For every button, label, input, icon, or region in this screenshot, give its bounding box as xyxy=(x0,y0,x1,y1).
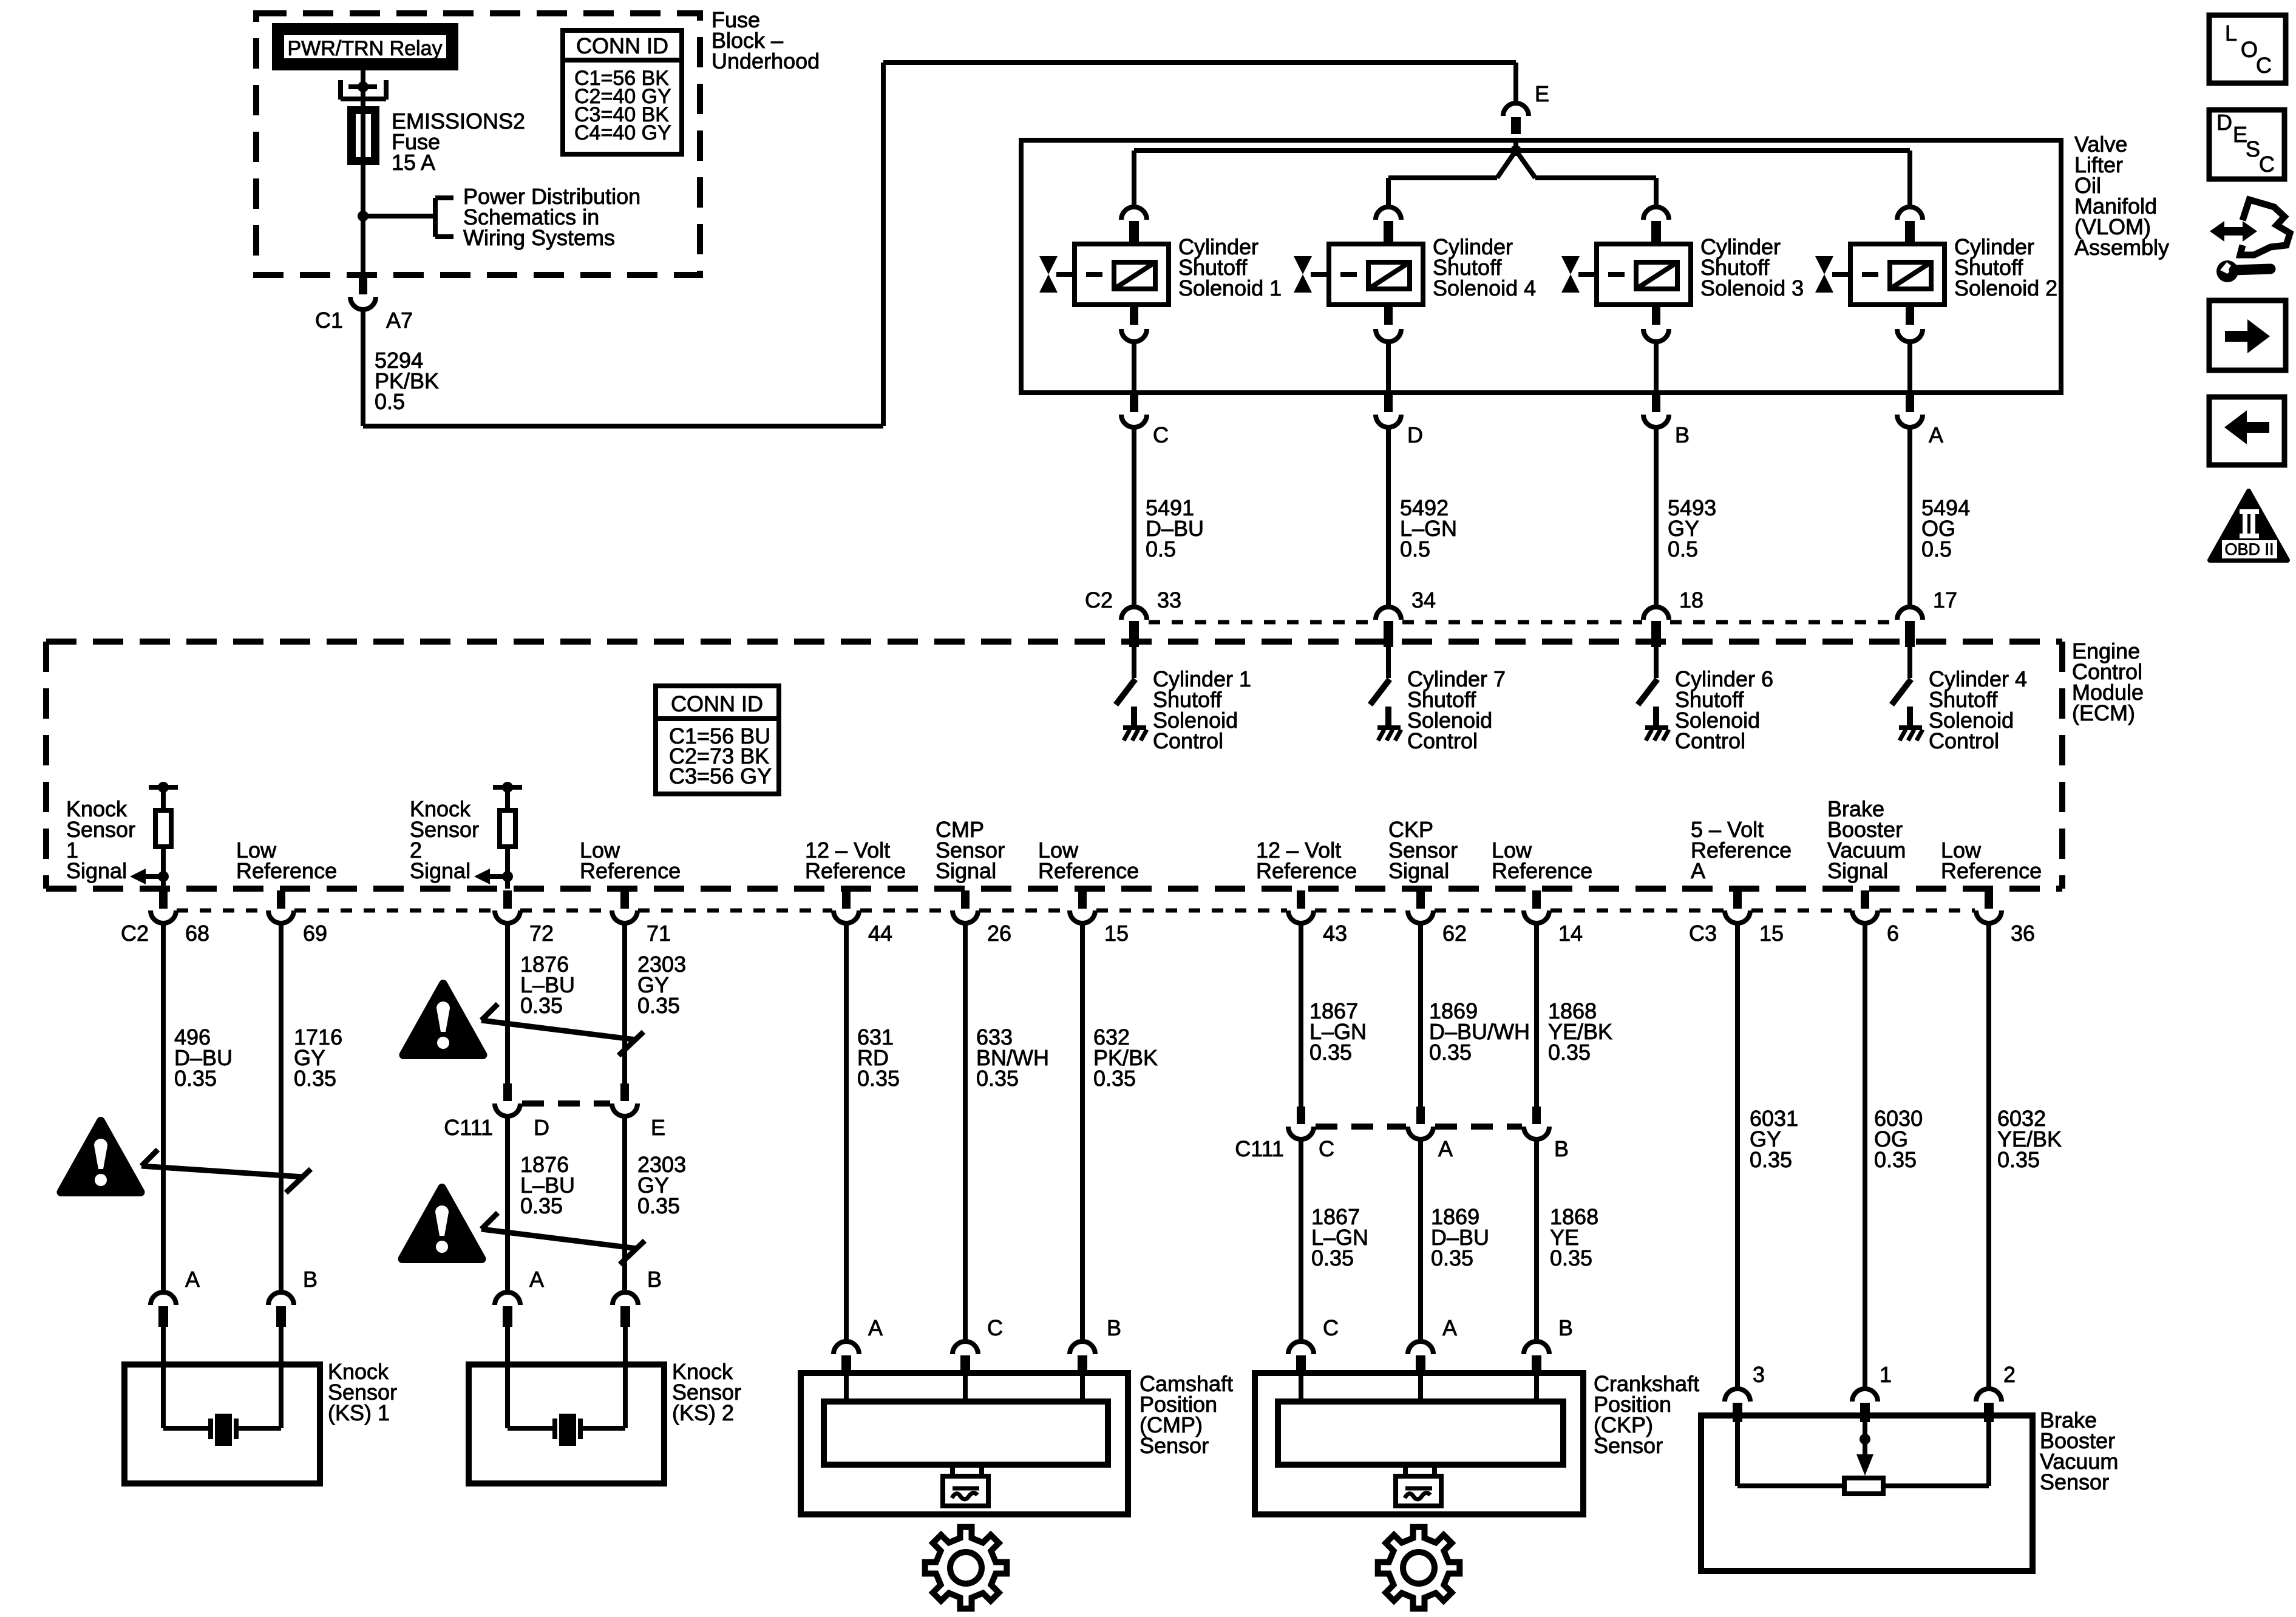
wire 1868 YE/BK 0.35 upper xyxy=(1534,923,1539,1107)
wire solenoid 2 to VLOM edge xyxy=(1907,342,1912,393)
svg-text:(KS) 2: (KS) 2 xyxy=(672,1400,734,1425)
hydraulic dashed link solenoid 4 xyxy=(1311,272,1368,277)
valve symbol at solenoid 4 xyxy=(1294,256,1312,274)
driver switch for cylinder 1 shutoff solenoid control xyxy=(1132,646,1136,678)
svg-text:Control: Control xyxy=(1153,728,1223,753)
svg-text:Sensor: Sensor xyxy=(1594,1433,1663,1458)
svg-text:B: B xyxy=(303,1267,318,1292)
svg-text:0.35: 0.35 xyxy=(637,993,680,1018)
svg-text:0.5: 0.5 xyxy=(1921,537,1952,561)
svg-text:0.35: 0.35 xyxy=(1309,1040,1352,1065)
ECM bottom connector pin 6 xyxy=(1861,890,1869,909)
signal junction dot KS1 xyxy=(158,871,169,882)
wire solenoid 4 to VLOM edge xyxy=(1386,342,1391,393)
svg-text:18: 18 xyxy=(1679,588,1703,612)
signal junction dot KS2 xyxy=(502,871,513,882)
svg-text:36: 36 xyxy=(2011,921,2035,946)
wire to ECM pin xyxy=(1907,427,1912,608)
svg-text:D: D xyxy=(534,1115,549,1140)
wire 1876 L-BU 0.35 lower xyxy=(505,1116,510,1293)
cylinder shutoff solenoid 2 box xyxy=(1850,244,1944,305)
camshaft position CMP sensor box xyxy=(801,1373,1128,1514)
connector C111 pin D xyxy=(503,1083,512,1101)
wire solenoid 3 to VLOM edge xyxy=(1654,342,1659,393)
BBV sensor internal wires xyxy=(1735,1415,1740,1486)
CMP inner element xyxy=(844,1373,849,1402)
icon LOC box xyxy=(2209,15,2286,83)
svg-text:Reference: Reference xyxy=(1256,858,1357,883)
svg-text:Signal: Signal xyxy=(1388,858,1449,883)
connector at cylinder shutoff solenoid 1 xyxy=(1121,207,1147,220)
knock sensor KS 2 box xyxy=(469,1364,664,1483)
valve symbol at solenoid 2 xyxy=(1815,256,1833,274)
connector C111 pin C xyxy=(1297,1107,1305,1124)
svg-text:Solenoid 1: Solenoid 1 xyxy=(1178,276,1282,300)
cylinder shutoff solenoid 3 box xyxy=(1597,244,1691,305)
wire 6032 YE/BK 0.35 xyxy=(1986,923,1991,1388)
svg-text:C3: C3 xyxy=(1689,921,1717,946)
wire 1869 D-BU/WH 0.35 upper xyxy=(1418,923,1423,1107)
wire bus to solenoids 1 and 2 xyxy=(1134,148,1910,153)
wire to ECM pin xyxy=(1386,427,1391,608)
svg-text:Reference: Reference xyxy=(805,858,906,883)
svg-text:Signal: Signal xyxy=(66,858,127,883)
signal arrow KS1 xyxy=(145,874,163,879)
wire xyxy=(505,847,510,889)
svg-text:CONN ID: CONN ID xyxy=(671,691,763,716)
BBV wiper arrow xyxy=(1856,1454,1873,1476)
CKP inner element xyxy=(1299,1373,1303,1402)
ground symbol xyxy=(1899,725,1922,730)
connector C111 pin E xyxy=(620,1083,629,1101)
wire 496 D-BU 0.35 xyxy=(161,923,166,1293)
connector at cylinder shutoff solenoid 3 xyxy=(1643,207,1669,220)
svg-text:15 A: 15 A xyxy=(392,150,435,175)
ECM bottom connector pin 68 xyxy=(159,890,168,909)
svg-text:34: 34 xyxy=(1411,588,1436,612)
svg-text:0.35: 0.35 xyxy=(294,1066,336,1091)
svg-text:E: E xyxy=(651,1115,665,1140)
solenoid 3 coil xyxy=(1636,262,1677,289)
reluctor gear CKP xyxy=(1378,1527,1460,1609)
svg-text:3: 3 xyxy=(1753,1362,1765,1387)
wire feed to solenoid 2 xyxy=(1907,151,1912,208)
svg-text:O: O xyxy=(2241,37,2258,62)
warning pointer KS2 upper xyxy=(481,1020,636,1040)
connector at cylinder shutoff solenoid 4 xyxy=(1376,207,1401,220)
svg-text:0.35: 0.35 xyxy=(174,1066,217,1091)
wire solenoid 1 to VLOM edge xyxy=(1132,342,1136,393)
wire xyxy=(161,847,166,889)
C111 dashed connector line xyxy=(522,1100,610,1107)
icon DESC box xyxy=(2209,110,2284,179)
svg-text:C2: C2 xyxy=(121,921,149,946)
svg-text:Underhood: Underhood xyxy=(712,49,820,73)
engine control module ECM dashed box xyxy=(46,642,2062,889)
cylinder shutoff solenoid 1 box xyxy=(1075,244,1169,305)
solenoid 3 lower pin xyxy=(1652,307,1660,325)
svg-text:C1: C1 xyxy=(315,308,343,333)
svg-text:Reference: Reference xyxy=(236,858,337,883)
svg-text:Control: Control xyxy=(1929,728,1999,753)
reluctor gear CMP xyxy=(925,1527,1007,1609)
ECM bottom connector pin 71 xyxy=(620,890,629,909)
svg-text:D: D xyxy=(2216,110,2232,135)
icon back arrow box xyxy=(2209,397,2284,465)
CKP pickup stem xyxy=(1403,1465,1408,1476)
svg-text:0.35: 0.35 xyxy=(1750,1147,1792,1172)
svg-text:D: D xyxy=(1407,422,1423,447)
ECM bottom connector pin 26 xyxy=(961,890,970,909)
solenoid 4 lower pin xyxy=(1384,307,1393,325)
svg-text:Control: Control xyxy=(1675,728,1745,753)
VLOM connector pin A xyxy=(1906,395,1914,412)
svg-text:15: 15 xyxy=(1759,921,1784,946)
solenoid 4 coil xyxy=(1368,262,1410,289)
warning triangle KS2 lower xyxy=(402,1188,482,1259)
svg-text:A: A xyxy=(185,1267,200,1292)
icon OBD II triangle xyxy=(2210,491,2288,560)
wire 631 RD 0.35 xyxy=(844,923,849,1341)
svg-text:0.35: 0.35 xyxy=(1550,1246,1592,1270)
fuse block dashed box - Fuse Block Underhood xyxy=(256,13,700,275)
svg-text:69: 69 xyxy=(303,921,327,946)
svg-text:0.35: 0.35 xyxy=(1311,1246,1354,1270)
svg-text:C111: C111 xyxy=(1235,1136,1284,1161)
svg-text:43: 43 xyxy=(1323,921,1347,946)
ground symbol xyxy=(1645,725,1668,730)
driver switch for cylinder 4 shutoff solenoid control xyxy=(1907,646,1912,678)
svg-text:C2: C2 xyxy=(1085,588,1113,612)
svg-text:Signal: Signal xyxy=(410,858,470,883)
splice junction xyxy=(1510,145,1521,156)
ECM bottom connector pin 43 xyxy=(1297,890,1305,909)
svg-text:Signal: Signal xyxy=(936,858,996,883)
svg-text:6: 6 xyxy=(1887,921,1899,946)
solenoid 2 lower pin xyxy=(1906,307,1914,325)
svg-text:A: A xyxy=(1929,422,1943,447)
piezo element KS2 xyxy=(508,1426,553,1431)
wire 1869 D-BU 0.35 lower xyxy=(1418,1139,1423,1341)
fork wires to solenoids 4 and 3 xyxy=(1497,151,1516,178)
svg-text:0.35: 0.35 xyxy=(520,1193,563,1218)
svg-text:A: A xyxy=(529,1267,544,1292)
svg-text:(KS) 1: (KS) 1 xyxy=(328,1400,390,1425)
svg-text:26: 26 xyxy=(987,921,1011,946)
svg-text:S: S xyxy=(2246,137,2260,161)
ECM bottom connector pin 62 xyxy=(1416,890,1425,909)
svg-text:Signal: Signal xyxy=(1827,858,1888,883)
hydraulic dashed link solenoid 3 xyxy=(1578,272,1636,277)
CONN ID table fuse block xyxy=(563,30,682,154)
solenoid 1 coil xyxy=(1114,262,1155,289)
ECM connector C2 pin 17 xyxy=(1897,607,1923,620)
wire feed to solenoid 1 xyxy=(1132,151,1136,208)
svg-text:CONN ID: CONN ID xyxy=(576,33,668,58)
warning pointer crossing KS1 wires xyxy=(141,1166,304,1177)
warning triangle KS2 upper xyxy=(404,984,483,1055)
relay K1 PWR/TRN Relay xyxy=(278,29,452,64)
VLOM connector pin C xyxy=(1130,395,1138,412)
ECM connector C2 pin 33 xyxy=(1121,607,1147,620)
svg-text:0.35: 0.35 xyxy=(1997,1147,2040,1172)
svg-text:68: 68 xyxy=(185,921,209,946)
connector C111 pin A xyxy=(1416,1107,1425,1124)
svg-text:C: C xyxy=(987,1315,1003,1340)
wire 632 PK/BK 0.35 xyxy=(1080,923,1085,1341)
connector C1 pin A7 xyxy=(359,277,367,294)
svg-text:OBD II: OBD II xyxy=(2224,540,2274,558)
svg-text:(ECM): (ECM) xyxy=(2072,700,2135,725)
ground symbol xyxy=(1377,725,1401,730)
svg-text:0.35: 0.35 xyxy=(1093,1066,1136,1091)
svg-text:0.35: 0.35 xyxy=(1429,1040,1472,1065)
svg-text:A: A xyxy=(1691,858,1705,883)
wire feed to solenoid 3 xyxy=(1654,178,1659,208)
svg-text:0.5: 0.5 xyxy=(1146,537,1176,561)
piezo element KS1 xyxy=(163,1426,209,1431)
svg-text:71: 71 xyxy=(647,921,671,946)
svg-text:B: B xyxy=(1675,422,1690,447)
svg-text:0.35: 0.35 xyxy=(637,1193,680,1218)
svg-text:C: C xyxy=(1153,422,1169,447)
svg-text:0.5: 0.5 xyxy=(1400,537,1430,561)
wire 6031 GY 0.35 xyxy=(1735,923,1740,1388)
svg-text:Solenoid 4: Solenoid 4 xyxy=(1433,276,1536,300)
driver switch for cylinder 7 shutoff solenoid control xyxy=(1386,646,1391,678)
svg-text:B: B xyxy=(1558,1315,1573,1340)
svg-text:Solenoid 2: Solenoid 2 xyxy=(1954,276,2057,300)
signal arrow KS2 xyxy=(489,874,508,879)
svg-text:Wiring Systems: Wiring Systems xyxy=(463,225,615,250)
svg-text:0.35: 0.35 xyxy=(976,1066,1019,1091)
wire from relay through fuse xyxy=(361,70,365,277)
CMP pickup stem xyxy=(950,1465,955,1476)
valve symbol at solenoid 1 xyxy=(1039,256,1058,274)
svg-text:Control: Control xyxy=(1407,728,1478,753)
solenoid 2 coil xyxy=(1890,262,1931,289)
knock sensor KS 1 box xyxy=(124,1364,320,1483)
wire to ECM pin xyxy=(1132,427,1136,608)
svg-text:0.35: 0.35 xyxy=(520,993,563,1018)
svg-text:Sensor: Sensor xyxy=(1140,1433,1209,1458)
svg-text:0.35: 0.35 xyxy=(1874,1147,1917,1172)
svg-text:0.5: 0.5 xyxy=(375,389,405,414)
svg-text:PWR/TRN Relay: PWR/TRN Relay xyxy=(287,37,442,60)
connector C111 pin B xyxy=(1532,1107,1541,1124)
svg-text:33: 33 xyxy=(1157,588,1181,612)
svg-text:E: E xyxy=(1535,81,1549,106)
BBV potentiometer xyxy=(1844,1478,1883,1494)
VLOM assembly box xyxy=(1021,140,2061,393)
icon forward arrow box xyxy=(2209,300,2286,370)
svg-text:B: B xyxy=(647,1267,662,1292)
svg-text:Reference: Reference xyxy=(1492,858,1592,883)
ECM connector C2 pin 18 xyxy=(1643,607,1669,620)
svg-text:B: B xyxy=(1554,1136,1569,1161)
C111 dashed line CKP xyxy=(1316,1124,1406,1130)
hydraulic dashed link solenoid 1 xyxy=(1056,272,1114,277)
ECM C2 connector dotted line xyxy=(1149,620,1374,625)
svg-text:62: 62 xyxy=(1442,921,1467,946)
svg-text:1: 1 xyxy=(1880,1362,1892,1387)
ECM bottom connector pin 44 xyxy=(842,890,851,909)
svg-text:Sensor: Sensor xyxy=(2040,1470,2109,1494)
svg-text:0.5: 0.5 xyxy=(1668,537,1698,561)
ECM bottom connector pin 72 xyxy=(503,890,512,909)
svg-text:A: A xyxy=(1438,1136,1453,1161)
warning triangle KS1 xyxy=(61,1121,141,1192)
svg-text:Reference: Reference xyxy=(1941,858,2042,883)
warning pointer KS2 lower xyxy=(481,1229,637,1249)
resistor R KS1 xyxy=(155,810,171,847)
wire 633 BN/WH 0.35 xyxy=(963,923,968,1341)
svg-text:Solenoid 3: Solenoid 3 xyxy=(1700,276,1804,300)
ECM bottom connector pin 15 xyxy=(1078,890,1087,909)
svg-text:L: L xyxy=(2225,21,2237,46)
svg-text:72: 72 xyxy=(529,921,554,946)
knock sensor 2 bias circuit T-bar xyxy=(493,785,522,790)
wire route from fuse block to E xyxy=(363,424,883,429)
knock sensor 1 bias circuit T-bar xyxy=(149,785,178,790)
svg-text:Reference: Reference xyxy=(580,858,681,883)
svg-text:0.35: 0.35 xyxy=(1548,1040,1591,1065)
svg-text:C: C xyxy=(1319,1136,1334,1161)
ECM bottom connector pin 14 xyxy=(1532,890,1541,909)
CONN ID table ECM xyxy=(656,686,779,794)
wire 1868 YE 0.35 lower xyxy=(1534,1139,1539,1341)
wire feed to solenoid 4 xyxy=(1386,178,1391,208)
svg-text:A7: A7 xyxy=(386,308,413,333)
junction T-bar xyxy=(348,84,377,89)
hydraulic dashed link solenoid 2 xyxy=(1832,272,1890,277)
solenoid 1 lower pin xyxy=(1130,307,1138,325)
fuse holder clip xyxy=(338,80,343,100)
fuse F EMISSIONS2 15A xyxy=(350,109,377,163)
svg-text:15: 15 xyxy=(1104,921,1129,946)
wire to power distribution note xyxy=(363,214,433,219)
svg-text:44: 44 xyxy=(868,921,892,946)
wire 1876 L-BU 0.35 upper xyxy=(505,923,510,1084)
ECM bottom connector pin 69 xyxy=(277,890,285,909)
VLOM connector pin D xyxy=(1384,395,1393,412)
ground symbol xyxy=(1123,725,1146,730)
svg-text:C: C xyxy=(2259,152,2275,177)
svg-text:C3=56 GY: C3=56 GY xyxy=(669,764,772,788)
svg-text:Assembly: Assembly xyxy=(2074,235,2169,260)
svg-text:C: C xyxy=(1323,1315,1339,1340)
svg-text:Reference: Reference xyxy=(1038,858,1139,883)
svg-text:A: A xyxy=(1442,1315,1457,1340)
wire 1716 GY 0.35 xyxy=(279,923,284,1293)
wire 5294 PK/BK 0.5 xyxy=(361,310,365,426)
svg-text:2: 2 xyxy=(2003,1362,2016,1387)
svg-text:14: 14 xyxy=(1558,921,1583,946)
wire 2303 GY 0.35 upper xyxy=(622,923,627,1084)
wire 6030 OG 0.35 xyxy=(1863,923,1867,1388)
svg-text:Reference: Reference xyxy=(1691,838,1792,863)
VLOM connector pin B xyxy=(1652,395,1660,412)
icon part locator with wrench xyxy=(2210,221,2257,242)
svg-text:0.35: 0.35 xyxy=(857,1066,900,1091)
valve symbol at solenoid 3 xyxy=(1561,256,1580,274)
crankshaft position CKP sensor box xyxy=(1255,1373,1583,1514)
wire 1867 L-GN 0.35 upper xyxy=(1299,923,1303,1107)
brake booster vacuum sensor box xyxy=(1701,1415,2033,1571)
svg-text:A: A xyxy=(868,1315,883,1340)
ECM bottom connector pin 36 xyxy=(1985,890,1993,909)
svg-text:17: 17 xyxy=(1933,588,1957,612)
cylinder shutoff solenoid 4 box xyxy=(1329,244,1423,305)
wire 1867 L-GN 0.35 lower xyxy=(1299,1139,1303,1341)
resistor R KS2 xyxy=(500,810,515,847)
ECM bottom connector pin 15 xyxy=(1733,890,1742,909)
connector at cylinder shutoff solenoid 2 xyxy=(1897,207,1923,220)
svg-text:B: B xyxy=(1107,1315,1121,1340)
driver switch for cylinder 6 shutoff solenoid control xyxy=(1654,646,1659,678)
power distribution bracket xyxy=(433,198,438,237)
wire to ECM pin xyxy=(1654,427,1659,608)
ECM bottom connector dotted line xyxy=(177,909,268,913)
BBV wiper junction dot xyxy=(1860,1434,1870,1445)
wire 2303 GY 0.35 lower xyxy=(622,1116,627,1293)
junction dot to power distribution xyxy=(358,211,369,222)
wire from E to splice xyxy=(1513,138,1518,152)
svg-text:C111: C111 xyxy=(444,1115,493,1140)
svg-text:C: C xyxy=(2256,53,2272,78)
svg-text:0.35: 0.35 xyxy=(1431,1246,1473,1270)
ECM connector C2 pin 34 xyxy=(1376,607,1401,620)
svg-text:C4=40 GY: C4=40 GY xyxy=(574,121,671,144)
